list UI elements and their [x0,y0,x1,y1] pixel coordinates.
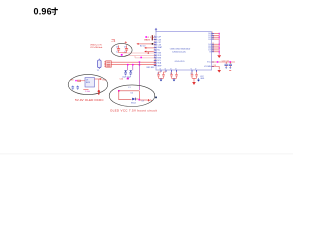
bus wire vertical [218,33,220,54]
U2 left-side pins [154,37,157,66]
load cap branch wire a [127,65,129,70]
bus net flag arrow [217,55,221,58]
wire from xtal junction down to boost loop [138,62,140,90]
capacitor C2 [157,72,161,78]
wire RES net [135,56,154,58]
junction square R8 [75,80,76,81]
svg-text:C11 C12: C11 C12 [222,61,229,63]
svg-text:11: 11 [212,38,214,40]
svg-text:C13: C13 [213,65,216,67]
svg-text:VBAT33: VBAT33 [144,38,150,41]
annotation ellipse E2 [68,75,108,95]
annotation ellipse E1 [111,43,132,56]
crystal Y1 body [98,59,102,69]
load capacitor Cb [129,73,132,76]
svg-text:L1: L1 [128,87,130,89]
load cap branch wire b [132,65,134,70]
svg-text:VCC=7-8V dc-dc: VCC=7-8V dc-dc [90,47,103,49]
red hook wire above ellipse1 [112,39,115,40]
load cap arrow a [124,70,127,72]
wire net arrow pin SDA [144,51,154,53]
U2 left pin numbers [154,36,156,67]
wire R8 to U3 [81,80,85,82]
load cap arrow b [129,70,132,72]
svg-text:B0 C0: B0 C0 [140,46,145,48]
svg-text:GND-VDD: GND-VDD [175,61,185,63]
svg-text:2.2uH: 2.2uH [85,91,91,93]
svg-text:B628: B628 [86,82,90,84]
U2 bottom pin labels [160,68,198,70]
output plus mark [148,99,150,101]
junction dot at ellipse3 right [155,96,157,98]
resistor R1 vertical [152,35,153,40]
wire crystal upper to pin SCL-xin [111,61,156,63]
crystal footprint block red [104,61,111,67]
junction square loop top-left [118,90,120,92]
title text 0.96寸 [34,7,58,17]
red mark below C11 [229,70,231,72]
svg-text:+C8: +C8 [111,41,116,43]
R1 label box [145,36,147,38]
ground below C4 C5 [173,78,176,81]
svg-text:13: 13 [212,45,214,47]
svg-text:12: 12 [212,43,214,45]
junction dot on RES wire [152,43,154,45]
svg-text:BS1 BS2: BS1 BS2 [147,67,155,69]
svg-text:D4: D4 [131,93,133,95]
capacitor C5 [172,72,178,78]
svg-text:1u: 1u [116,52,118,54]
svg-text:C10: C10 [120,78,123,80]
capacitor C4 [170,72,173,78]
svg-text:10: 10 [154,59,156,61]
U2 right pin name labels group1 [208,33,210,41]
U2 right-side pins group1 [212,33,215,39]
output tick [150,100,153,101]
svg-text:C9: C9 [141,100,143,102]
junction squares on ladder [219,33,220,53]
junction square ellipse1 bottom [121,54,123,56]
svg-text:15: 15 [212,49,214,51]
svg-text:C2: C2 [157,73,159,75]
faint separator line bottom [0,152,293,155]
ground below C2 C3 [160,78,163,81]
wire loop to output [139,99,147,101]
regulator U3 body [85,78,95,87]
capacitor C11 right cluster [225,62,228,69]
op-amp U2 body [156,32,212,70]
svg-text:14: 14 [212,47,214,49]
junction square xtal wire a [127,64,129,66]
U2 right pin name labels group2 [208,44,211,54]
svg-text:C6: C6 [190,73,192,75]
ground below C7 [197,78,200,81]
wire VCOMH pin down [212,67,220,70]
U2 right-side pins group2 [212,44,215,52]
capacitor C15 blue [76,86,79,90]
svg-text:R8: R8 [71,80,74,82]
junction on VCC wire 2 [230,61,232,63]
junction square xtal wire b [132,64,134,66]
capacitor C12 right cluster [229,62,232,69]
capacitor C3 [159,72,167,78]
capacitor C9 [124,45,128,53]
svg-text:VCC: VCC [102,79,107,81]
svg-text:C4: C4 [170,73,172,75]
wire VCC pin to caps [212,61,236,63]
junction square xtal wire c [139,61,141,63]
U2 right pin name labels group3 [204,62,211,68]
capacitor C14 blue [72,86,75,90]
svg-text:SS14: SS14 [131,103,136,105]
load capacitor Ca [124,73,127,76]
wire net arrow pin SCL [144,47,154,49]
junction on VCC wire [217,61,219,63]
power flag at U2 top-left [155,28,157,31]
svg-text:10: 10 [212,36,214,38]
wire crystal lower to pin SDA-xout [111,64,156,66]
junction square left pins [140,57,142,59]
svg-text:OLED 0.96in SSD1306 dr: OLED 0.96in SSD1306 dr [170,48,191,51]
ladder pin number dots [212,32,214,52]
resistor bus net ladder right of U2 [214,33,219,51]
svg-text:16: 16 [212,51,214,53]
capacitor C8 [116,45,120,53]
red marks under U3 [83,89,88,91]
wire R1 to pin [152,37,155,39]
resistor R8 body [78,80,81,81]
U2 left pin name labels [157,37,162,68]
U2 right-side pins group3 [212,62,215,67]
junction dot on VSS wire [148,52,150,54]
svg-text:VCOMH: VCOMH [204,66,211,68]
net arrow right of U3 [95,78,103,80]
wire VDD net from ellipse1 [125,54,154,56]
capacitor C7 [192,72,198,78]
diode D1 [132,98,138,101]
capacitor C6 [191,72,194,78]
U2 bottom-side pins [161,70,197,72]
boost loop wire rectangle [119,91,140,100]
wire U3 right down [98,79,100,89]
power flag below C6 [192,78,196,85]
svg-text:GND: GND [200,78,205,80]
power flag down VCOMH [217,70,221,73]
net flag diamond below ellipse2 [97,89,100,95]
svg-text:OLED VCC 7.5V boost circuit: OLED VCC 7.5V boost circuit [110,108,157,112]
magenta mark under caps [127,78,129,80]
svg-text:9: 9 [212,34,213,36]
junction square xtal wire d [139,64,141,66]
svg-text:U3: U3 [86,80,88,82]
wire joining caps bottom [119,52,127,54]
svg-text:128x64 Dots-I2C: 128x64 Dots-I2C [172,50,186,53]
svg-text:5V-9V OLED DCDC: 5V-9V OLED DCDC [75,98,104,102]
svg-text:D3: D3 [208,39,210,41]
wire VSS net from ellipse1 [123,52,154,54]
junction square loop right [139,99,141,101]
annotation ellipse E3 [109,85,155,107]
red plus mark [125,41,127,43]
svg-text:Y1: Y1 [97,70,100,72]
svg-text:8: 8 [212,32,213,34]
wire net arrow pin RES [136,43,153,45]
svg-text:0.96: 0.96 [34,7,52,17]
